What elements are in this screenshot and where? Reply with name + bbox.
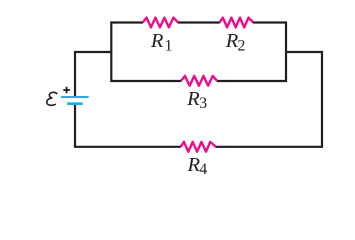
battery EMF source <box>47 87 89 106</box>
svg-text:R: R <box>150 30 164 52</box>
wire: inner rectangle top-right corner segment <box>217 23 286 82</box>
resistor R1 <box>143 18 179 28</box>
battery long plate (+) <box>61 96 89 98</box>
resistor R2 <box>220 18 254 28</box>
svg-text:1: 1 <box>165 37 173 54</box>
wire: left connector from battery branch to inner rectangle <box>75 51 111 53</box>
resistor R3 <box>181 76 217 86</box>
wire: right connector and outer right edge down to bottom <box>216 52 323 147</box>
svg-text:R: R <box>186 88 200 110</box>
svg-text:4: 4 <box>199 161 207 178</box>
wire: inner rectangle top-left corner segment <box>111 23 181 82</box>
svg-text:3: 3 <box>199 95 207 112</box>
resistor R4 <box>181 142 216 152</box>
wire: left vertical below battery and bottom wire to R4 <box>75 104 181 147</box>
plus sign <box>63 87 70 94</box>
wire: left vertical above battery <box>74 51 76 96</box>
battery short plate (-) <box>67 102 83 105</box>
svg-text:2: 2 <box>237 37 245 54</box>
EMF script-E symbol <box>47 92 57 105</box>
wire: top segment between R1 and R2 <box>178 21 220 23</box>
